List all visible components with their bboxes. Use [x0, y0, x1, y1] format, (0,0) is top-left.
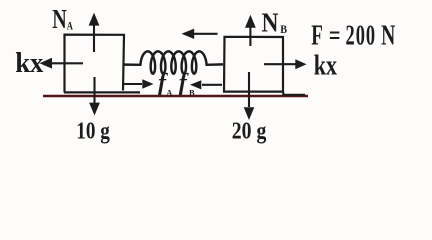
block A (10 g mass) [64, 35, 140, 93]
svg-text:B: B [280, 22, 287, 36]
arrow N_B (normal force on B, up) [245, 15, 256, 46]
arrow direction of F (left, above spring) [182, 29, 218, 39]
svg-text:=: = [329, 21, 341, 52]
svg-text:A: A [166, 88, 173, 98]
svg-text:B: B [189, 88, 195, 98]
arrow N_A (normal force on A, up) [89, 13, 100, 52]
svg-text:kx: kx [314, 51, 337, 82]
svg-text:20 g: 20 g [232, 118, 267, 144]
svg-text:N: N [52, 4, 67, 34]
svg-text:F: F [311, 21, 323, 52]
spring between blocks [123, 51, 223, 73]
arrow f_A friction (right) [122, 79, 154, 88]
svg-text:kx: kx [15, 47, 44, 79]
svg-text:N: N [262, 7, 279, 37]
arrow 10g weight (down) [89, 77, 100, 116]
svg-text:f: f [179, 70, 189, 96]
svg-text:10 g: 10 g [76, 118, 110, 144]
arrow kx on A (left) [40, 58, 84, 69]
arrow 20g weight (down) [244, 72, 255, 120]
svg-text:2: 2 [346, 21, 355, 52]
block B (20 g mass) [223, 37, 305, 95]
svg-text:0: 0 [356, 21, 365, 52]
arrow kx on B (right) [264, 59, 307, 69]
ground (table surface) [43, 95, 308, 98]
arrow f_B friction (left) [190, 80, 222, 89]
svg-text:A: A [67, 18, 73, 32]
label F = 200 N [311, 21, 395, 52]
svg-text:N: N [381, 21, 395, 52]
svg-text:0: 0 [366, 21, 375, 52]
